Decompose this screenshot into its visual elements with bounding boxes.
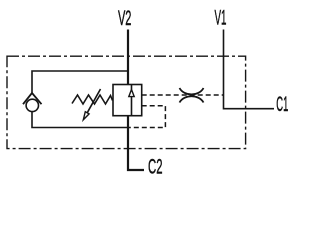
spring adjustment arrowhead (open)	[83, 112, 89, 120]
check valve ball	[26, 99, 38, 111]
restrictor lower arc	[180, 96, 204, 102]
svg-text:V1: V1	[215, 7, 227, 30]
valve body square	[113, 85, 142, 116]
check valve seat	[23, 93, 42, 104]
pilot line upper (dashed) to V1	[142, 94, 223, 96]
svg-text:V2: V2	[118, 7, 132, 30]
pilot line lower (dashed) to C2 node	[129, 106, 165, 128]
spring adjustment arrow shaft	[87, 89, 100, 113]
enclosure boundary (dash-dot)	[7, 56, 246, 148]
valve flow arrowhead (open, pointing up)	[129, 90, 134, 97]
wire top branch to check valve	[32, 71, 128, 93]
wire V1 vertical and to C1	[224, 30, 275, 109]
spring (adjustable)	[72, 95, 113, 104]
svg-text:C1: C1	[276, 93, 288, 116]
restrictor upper arc	[180, 88, 204, 94]
svg-text:C2: C2	[148, 155, 163, 178]
wire V2 vertical	[127, 30, 129, 85]
wire check valve to bottom	[32, 112, 128, 128]
valve flow arrow shaft	[131, 85, 133, 116]
wire C2 vertical	[128, 116, 144, 171]
